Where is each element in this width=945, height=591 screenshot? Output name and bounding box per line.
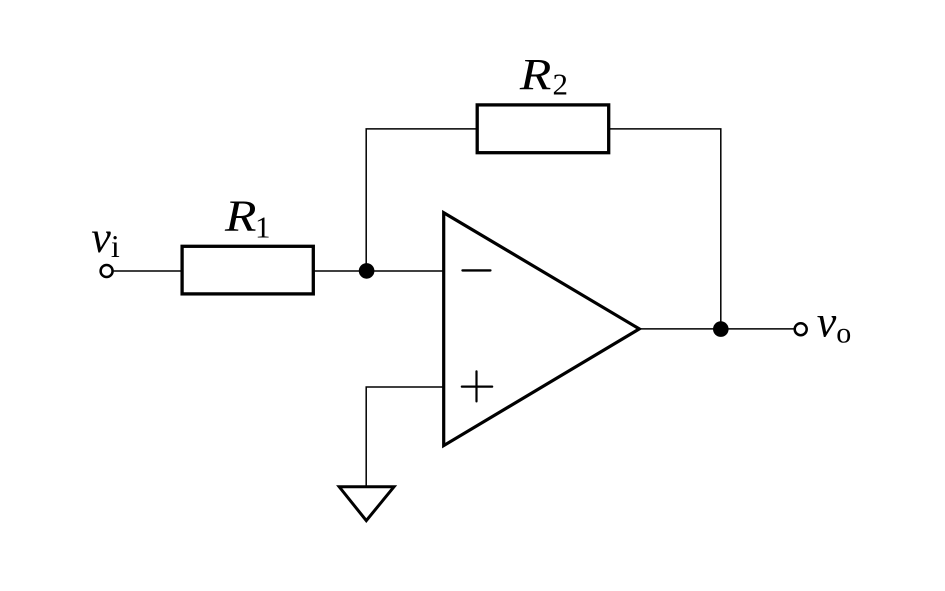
input terminal vi <box>101 265 113 277</box>
wire input to R1 <box>114 270 182 272</box>
node A (inverting input junction) <box>359 263 375 279</box>
wire node up to R2 <box>366 129 478 271</box>
svg-text:R: R <box>519 50 552 99</box>
wire R2 to output node <box>608 129 721 329</box>
svg-text:2: 2 <box>553 67 569 102</box>
output terminal vo <box>795 323 807 335</box>
wire non-inverting input <box>366 387 444 487</box>
svg-text:i: i <box>111 228 120 264</box>
svg-text:v: v <box>91 213 111 262</box>
svg-text:v: v <box>817 297 837 346</box>
node B (output junction) <box>713 321 729 337</box>
op-amp U1 <box>444 213 640 446</box>
plus sign (non-inverting input) <box>462 371 492 401</box>
wire R1 to op-amp <box>313 270 445 272</box>
resistor R1 <box>182 246 313 294</box>
output wire <box>640 328 794 330</box>
minus sign (inverting input) <box>463 269 491 271</box>
ground <box>339 487 394 521</box>
resistor R2 <box>477 105 609 153</box>
svg-text:1: 1 <box>255 209 271 244</box>
svg-text:o: o <box>836 316 851 349</box>
svg-text:R: R <box>224 191 257 240</box>
